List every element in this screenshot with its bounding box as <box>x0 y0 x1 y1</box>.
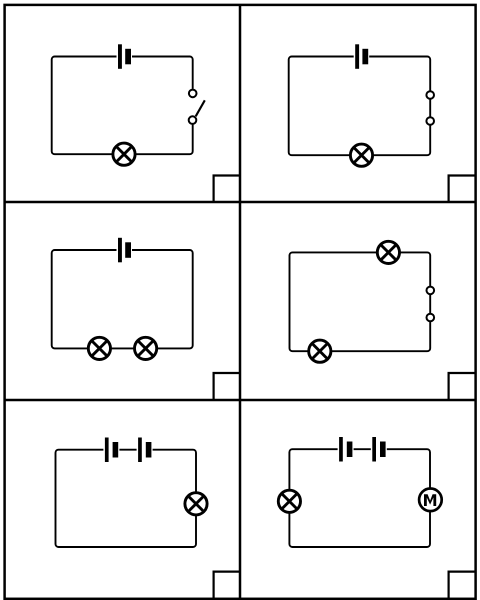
battery B6a <box>338 437 354 462</box>
battery B5a <box>103 438 119 463</box>
lamp L6 <box>278 490 300 512</box>
wire loop circuit 5 <box>56 450 197 547</box>
switch S4 (closed connectors) <box>427 287 435 322</box>
battery B5b <box>137 438 153 463</box>
lamp L1 <box>113 143 135 165</box>
lamp L3b <box>135 337 157 359</box>
lamp L4a (top) <box>377 241 399 263</box>
wire loop circuit 6 <box>289 449 430 547</box>
battery B3 <box>117 238 133 262</box>
wire loop circuit 2 <box>289 57 431 156</box>
lamp L4b (bottom) <box>309 340 331 362</box>
switch S1 (open) <box>189 89 205 125</box>
wire loop circuit 3 <box>52 250 193 348</box>
wire loop circuit 1 <box>52 57 193 155</box>
battery B1 <box>117 44 133 69</box>
switch S2 (closed connectors) <box>426 91 434 125</box>
lamp L3a <box>88 337 110 359</box>
battery B6b <box>371 437 387 462</box>
lamp L5 <box>185 493 207 515</box>
motor M1 <box>419 489 442 512</box>
battery B2 <box>354 44 370 69</box>
wire loop circuit 4 <box>290 252 431 351</box>
lamp L2 <box>350 144 372 166</box>
